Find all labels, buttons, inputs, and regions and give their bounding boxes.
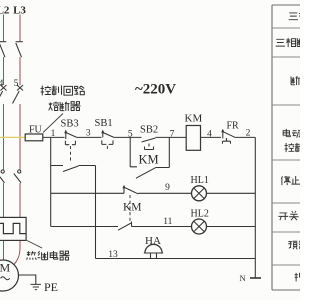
svg-text:KM: KM [123,202,142,214]
svg-text:9: 9 [165,183,170,193]
svg-text:SB2: SB2 [140,125,158,136]
svg-text:5: 5 [14,79,19,89]
svg-text:SB3: SB3 [61,119,79,130]
svg-text:7: 7 [170,129,175,139]
svg-text:M: M [0,261,10,275]
svg-text:SB1: SB1 [95,118,113,129]
svg-text:L2: L2 [0,5,10,17]
svg-text:4: 4 [207,129,212,139]
svg-text:L3: L3 [13,5,26,17]
svg-text:5: 5 [128,129,133,139]
svg-text:2: 2 [246,129,251,139]
svg-text:FU: FU [29,125,43,136]
svg-text:3: 3 [86,129,91,139]
svg-text:~220V: ~220V [135,82,176,98]
svg-text:FR: FR [227,121,240,132]
svg-text:HA: HA [145,235,161,247]
svg-text:11: 11 [163,217,172,227]
svg-text:13: 13 [108,250,118,260]
svg-text:HL2: HL2 [191,208,209,219]
svg-text:N: N [240,273,246,283]
svg-text:PE: PE [44,280,58,294]
svg-text:1: 1 [51,129,56,139]
svg-text:KM: KM [139,153,159,167]
svg-text:4: 4 [0,79,4,89]
svg-text:KM: KM [185,112,203,124]
svg-text:HL1: HL1 [191,175,209,186]
